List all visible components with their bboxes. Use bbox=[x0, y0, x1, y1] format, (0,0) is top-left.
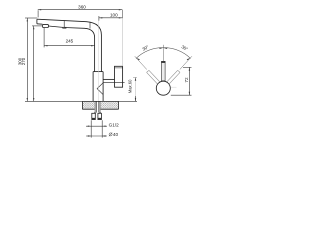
arrow g12 right bbox=[102, 126, 105, 127]
deck left extension bbox=[25, 100, 82, 102]
dim 40 line bbox=[86, 135, 107, 137]
dim 245 left extension bbox=[43, 28, 45, 48]
svg-text:40: 40 bbox=[113, 132, 119, 137]
angle ref right radial bbox=[180, 56, 192, 69]
arrow 72 bottom bbox=[189, 92, 190, 95]
lever right swung bbox=[166, 70, 180, 84]
spout bottom edge and inner bend bbox=[48, 26, 94, 72]
seam collar bbox=[63, 27, 66, 28]
handle bar bbox=[115, 66, 123, 87]
g12 extension left bbox=[90, 120, 92, 137]
arrow g12 left bbox=[88, 126, 91, 127]
housing right edge bbox=[102, 72, 104, 102]
svg-text:G1/2: G1/2 bbox=[109, 122, 120, 127]
handle arm pin bbox=[103, 81, 125, 83]
svg-text:Max.60: Max.60 bbox=[127, 79, 132, 93]
arrow 40 right bbox=[102, 135, 105, 136]
svg-text:72: 72 bbox=[184, 77, 189, 83]
deck bottom line bbox=[82, 108, 118, 110]
dim 245 line bbox=[44, 45, 95, 47]
arrow 270 top bbox=[33, 26, 34, 29]
housing chamfer wedge bbox=[97, 83, 103, 95]
angle ref center line bbox=[162, 45, 164, 61]
arrow 360 right bbox=[119, 9, 122, 10]
spout seam 2 bbox=[89, 22, 91, 29]
arc arrow left end bbox=[136, 58, 140, 60]
hose left bbox=[94, 112, 96, 113]
svg-text:245: 245 bbox=[66, 38, 74, 43]
dim 100 left extension bbox=[98, 16, 100, 21]
deck left cap bbox=[81, 101, 83, 109]
arrow 360 left bbox=[38, 9, 41, 10]
arc arrow right end bbox=[187, 58, 191, 60]
dim 100 line bbox=[99, 17, 122, 19]
deck right extension bbox=[119, 100, 138, 102]
nipple cap fill right bbox=[98, 118, 102, 119]
dim 72 top extension bbox=[183, 66, 192, 68]
arc arrows at apex bbox=[136, 48, 190, 61]
arrow 270 bottom bbox=[33, 98, 34, 101]
nipple cap fill left bbox=[92, 118, 96, 119]
svg-text:100: 100 bbox=[110, 12, 118, 17]
svg-text:360: 360 bbox=[78, 4, 86, 9]
arrow 245 right bbox=[91, 45, 94, 46]
housing left edge bbox=[92, 72, 94, 102]
dim 360 left extension bbox=[37, 10, 39, 17]
handle arm top bbox=[103, 78, 114, 80]
hose right bbox=[99, 112, 101, 113]
dim 360 line bbox=[38, 9, 122, 11]
shank walls bbox=[95, 102, 100, 113]
aerator bbox=[43, 24, 49, 27]
spout seam 1 bbox=[63, 21, 65, 28]
spout tip front edge bbox=[36, 19, 38, 24]
arrow 72 top bbox=[189, 67, 190, 70]
max60 top tick bbox=[133, 76, 137, 78]
nipple caps bbox=[92, 117, 102, 119]
handle tip extension line dark top bbox=[122, 10, 124, 19]
faucet spout top edge and outer bend bbox=[37, 19, 102, 71]
hose nipple left bbox=[92, 113, 96, 119]
deck top line bbox=[82, 100, 118, 102]
spout bottom near tip bbox=[37, 23, 43, 25]
circle side mark bbox=[171, 86, 177, 88]
max60 upper faint line bbox=[135, 77, 137, 96]
dim max60 line bbox=[135, 96, 137, 101]
angle arc bbox=[136, 48, 191, 59]
dim 270 top extension bbox=[32, 25, 42, 27]
handle tip extension line bbox=[122, 18, 124, 66]
svg-text:270: 270 bbox=[21, 57, 26, 65]
arrow 300 bottom bbox=[27, 98, 28, 101]
arrowheads bbox=[27, 9, 137, 137]
angle ref left radial bbox=[135, 56, 147, 69]
arrow 300 top bbox=[27, 18, 28, 21]
deck hatch right bbox=[101, 102, 119, 109]
dim g12 line bbox=[86, 125, 107, 127]
arrow 100 left bbox=[99, 17, 102, 18]
handle bar top band bbox=[115, 67, 123, 69]
arrow max60 top bbox=[135, 77, 136, 80]
deck hatch left bbox=[82, 102, 94, 109]
dim 300 line bbox=[26, 18, 28, 101]
arrow 100 right bbox=[119, 17, 122, 18]
dim 72 line bbox=[188, 67, 190, 95]
arrow 245 left bbox=[44, 45, 47, 46]
handle circle bbox=[156, 81, 170, 95]
dim 270 line bbox=[33, 26, 35, 102]
g12 extension right bbox=[101, 120, 103, 137]
diameter symbol bbox=[109, 133, 112, 137]
hose nipple right bbox=[98, 113, 102, 119]
svg-text:30°: 30° bbox=[181, 44, 189, 52]
lever vertical outline bbox=[162, 61, 166, 80]
dim 300 top extension bbox=[25, 17, 37, 19]
deck right cap bbox=[118, 101, 120, 109]
body ledge bbox=[93, 71, 103, 73]
arrow 40 left bbox=[88, 135, 91, 136]
svg-text:30°: 30° bbox=[141, 44, 149, 52]
arrow max60 bottom bbox=[135, 98, 136, 101]
dim 72 bottom extension bbox=[171, 94, 192, 96]
body axis centerline bbox=[97, 21, 99, 102]
lever top cap bbox=[161, 61, 165, 63]
lever left swung bbox=[147, 70, 161, 84]
